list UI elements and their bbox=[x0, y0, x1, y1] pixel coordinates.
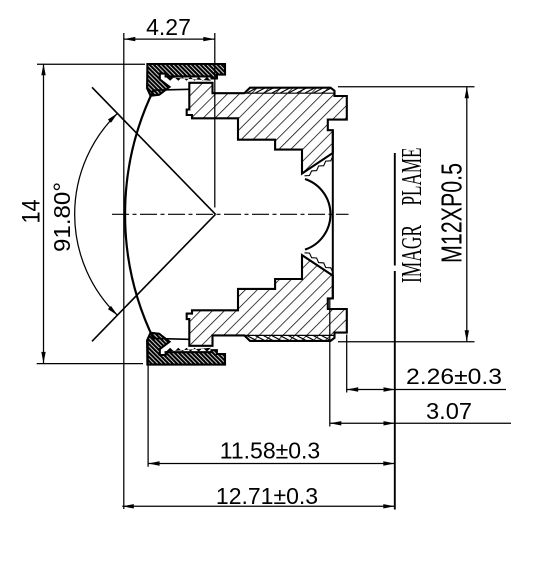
dimension 14 extension line bottom bbox=[37, 363, 143, 365]
svg-text:IMAGR: IMAGR bbox=[396, 225, 428, 283]
front retaining ring upper (dense hatch) bbox=[147, 64, 225, 96]
svg-text:91.80°: 91.80° bbox=[49, 182, 75, 252]
front retaining ring lower (dense hatch) bbox=[147, 333, 225, 365]
dimension 4.27 extension line left (lens vertex) bbox=[123, 33, 125, 509]
lens barrel upper half cross-section bbox=[187, 83, 347, 174]
svg-text:PLAME: PLAME bbox=[396, 148, 428, 206]
optical axis centerline bbox=[112, 213, 349, 215]
dimension 4.27 extension line right (apex) bbox=[214, 33, 216, 208]
field-of-view ray lower bbox=[92, 214, 216, 341]
dimension 11.58 extension line bbox=[147, 340, 149, 467]
rear face aperture edge line bbox=[332, 130, 334, 298]
front lens element surface arc bbox=[125, 89, 154, 340]
svg-text:12.71±0.3: 12.71±0.3 bbox=[216, 483, 318, 509]
dimension 14 line and arrows bbox=[41, 64, 45, 364]
rear internal thread zigzag lower bbox=[305, 253, 333, 273]
image plane line (upper segment) bbox=[394, 153, 396, 266]
M12 dimension line and arrows bbox=[465, 87, 469, 342]
angle dimension arc 91.80 bbox=[75, 113, 118, 315]
M12 thread dimension extension line top bbox=[338, 86, 475, 88]
image plane line (lower segment, extension for dims) bbox=[394, 271, 396, 510]
dimension 4.27 line and arrows bbox=[124, 37, 215, 41]
svg-text:4.27: 4.27 bbox=[146, 14, 191, 40]
svg-text:3.07: 3.07 bbox=[426, 398, 472, 424]
retaining ring internal thread teeth lower bbox=[166, 348, 211, 352]
M12 thread dimension extension line bottom bbox=[338, 341, 475, 343]
svg-text:14: 14 bbox=[18, 199, 46, 223]
dimension 3.07 extension line bbox=[329, 299, 331, 427]
angle arc arrowhead lower bbox=[108, 306, 118, 316]
front lens seat line upper bbox=[153, 88, 189, 91]
rear internal thread zigzag upper bbox=[305, 156, 333, 176]
M12 external thread tick marks bbox=[247, 88, 331, 341]
dimension 14 extension line top bbox=[37, 63, 145, 65]
angle arc arrowhead upper bbox=[108, 113, 118, 123]
dimension 12.71 line and arrows bbox=[122, 504, 395, 508]
rear lens element surface arc bbox=[305, 179, 330, 250]
svg-text:2.26±0.3: 2.26±0.3 bbox=[406, 364, 502, 389]
M12 thread root line upper bbox=[244, 92, 333, 94]
lens barrel lower half cross-section bbox=[187, 255, 347, 346]
dimension 2.26 line and arrows bbox=[347, 387, 506, 391]
dimension 3.07 line and arrows bbox=[330, 421, 511, 425]
svg-text:M12XP0.5: M12XP0.5 bbox=[437, 163, 469, 263]
dimension 2.26 extension line bbox=[346, 335, 348, 393]
svg-text:11.58±0.3: 11.58±0.3 bbox=[220, 438, 320, 464]
M12 thread root line lower bbox=[244, 334, 333, 336]
field-of-view ray upper bbox=[92, 87, 216, 214]
front lens seat line lower bbox=[153, 337, 189, 340]
dimension 11.58 line and arrows bbox=[148, 461, 395, 465]
retaining ring internal thread teeth upper bbox=[166, 77, 211, 81]
